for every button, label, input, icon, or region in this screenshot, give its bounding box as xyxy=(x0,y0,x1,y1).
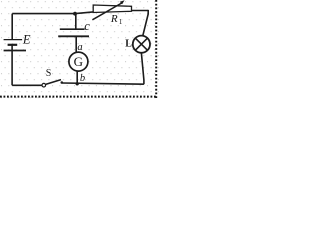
halftone background xyxy=(0,0,159,99)
wire bottom left (corner to switch) xyxy=(12,84,42,86)
wire top-left (battery to junction) xyxy=(12,13,75,15)
svg-text:1: 1 xyxy=(119,18,123,26)
svg-text:R: R xyxy=(110,13,118,25)
svg-text:S: S xyxy=(46,68,52,79)
svg-text:b: b xyxy=(80,73,85,84)
battery E xyxy=(4,39,23,41)
wire resistor to top-right corner xyxy=(132,10,149,12)
capacitor top stub xyxy=(75,14,77,30)
switch S xyxy=(42,83,46,87)
resistor R1 slider arrow xyxy=(92,2,122,19)
resistor R1 body xyxy=(93,5,131,13)
wire right upper (corner to lamp) xyxy=(143,10,148,35)
galvanometer G xyxy=(69,52,88,71)
lamp L xyxy=(133,36,150,53)
wire left upper (corner to battery) xyxy=(11,14,13,40)
svg-text:E: E xyxy=(22,33,31,47)
wire G to bottom wire (node b) xyxy=(76,71,78,84)
node junction dot top xyxy=(73,12,77,16)
wire capacitor to G (node a) xyxy=(75,36,77,53)
page border dotted bottom xyxy=(0,96,157,98)
wire bottom right (corner to switch) xyxy=(62,83,144,84)
page border dotted right xyxy=(155,0,157,99)
wire left lower (battery to bottom corner) xyxy=(11,45,13,86)
wire right lower (lamp to bottom corner) xyxy=(141,53,144,84)
capacitor plate bottom xyxy=(58,35,89,37)
svg-text:L: L xyxy=(125,39,132,50)
node junction dot bottom (G branch) xyxy=(76,82,79,85)
svg-text:c: c xyxy=(84,19,90,33)
svg-text:G: G xyxy=(74,54,83,69)
wire top (junction to resistor) xyxy=(76,12,94,14)
capacitor plate top (c) xyxy=(60,28,85,30)
